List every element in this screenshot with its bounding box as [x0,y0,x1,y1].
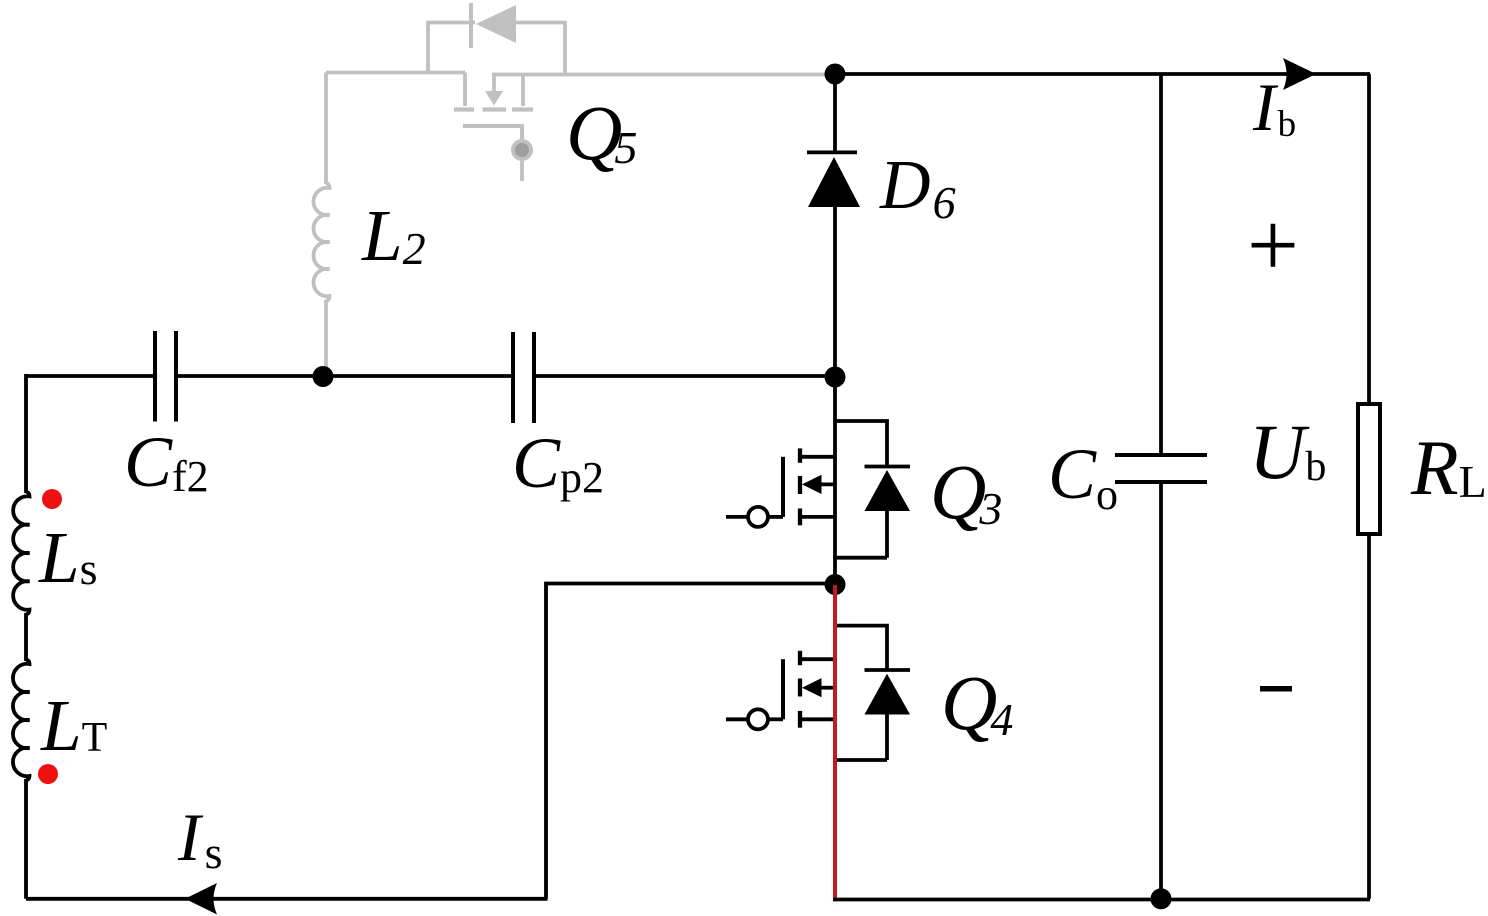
wire: bottom rail left segment [26,897,548,901]
node: Q3/Q4 midpoint junction [825,574,846,595]
wire: left vertical segments [24,374,28,899]
minus sign [1260,686,1292,692]
body diode of Q3 (pointing up) [835,421,910,558]
inductor LT [13,660,30,781]
transistor Q4 (MOSFET) [726,651,833,730]
polarity dot (red) at Ls top [42,489,62,509]
transistor Q3 (MOSFET) [726,377,835,583]
wire: right vertical segments [1367,74,1371,899]
diode D6 (pointing up) [807,74,860,377]
current arrow Is (pointing left) [185,883,217,915]
node: junction of Cf2/Cp2/L2 [313,366,334,387]
inductor L2 (gray) [313,73,329,373]
wire: top rail black (top node to right corner) [828,72,1370,76]
svg-text:+: + [1247,194,1299,296]
transistor Q5 (gray MOSFET, horizontal) [454,73,533,182]
wire: bottom rail right segment [833,898,1370,902]
polarity dot (red) at LT bottom [38,764,58,784]
body diode of Q4 (pointing up) [837,626,910,760]
node: Q3 drain junction [825,367,846,388]
wire: gray top rail left segment (L2 corner to Q5 source) [326,71,465,75]
node: Co bottom junction [1151,888,1172,909]
current arrow Ib (pointing right) [1283,58,1316,90]
resistor RL [1358,404,1380,534]
capacitor Cp2 [513,332,534,423]
wire: top-left horizontal rail (y=376) [26,374,835,378]
body diode of Q5 (gray, antiparallel, pointing left) [428,3,565,75]
capacitor Cf2 [155,331,176,422]
wire: gray top rail right segment (Q5 drain to top node) [492,73,830,77]
wire: midpoint to left and down to bottom rail [546,584,835,899]
capacitor Co (horizontal plates on vertical wire) [1115,74,1207,899]
inductor Ls [13,492,29,615]
wire: red highlighted Q4 drain-source path [833,585,837,899]
node: top junction [825,64,846,85]
